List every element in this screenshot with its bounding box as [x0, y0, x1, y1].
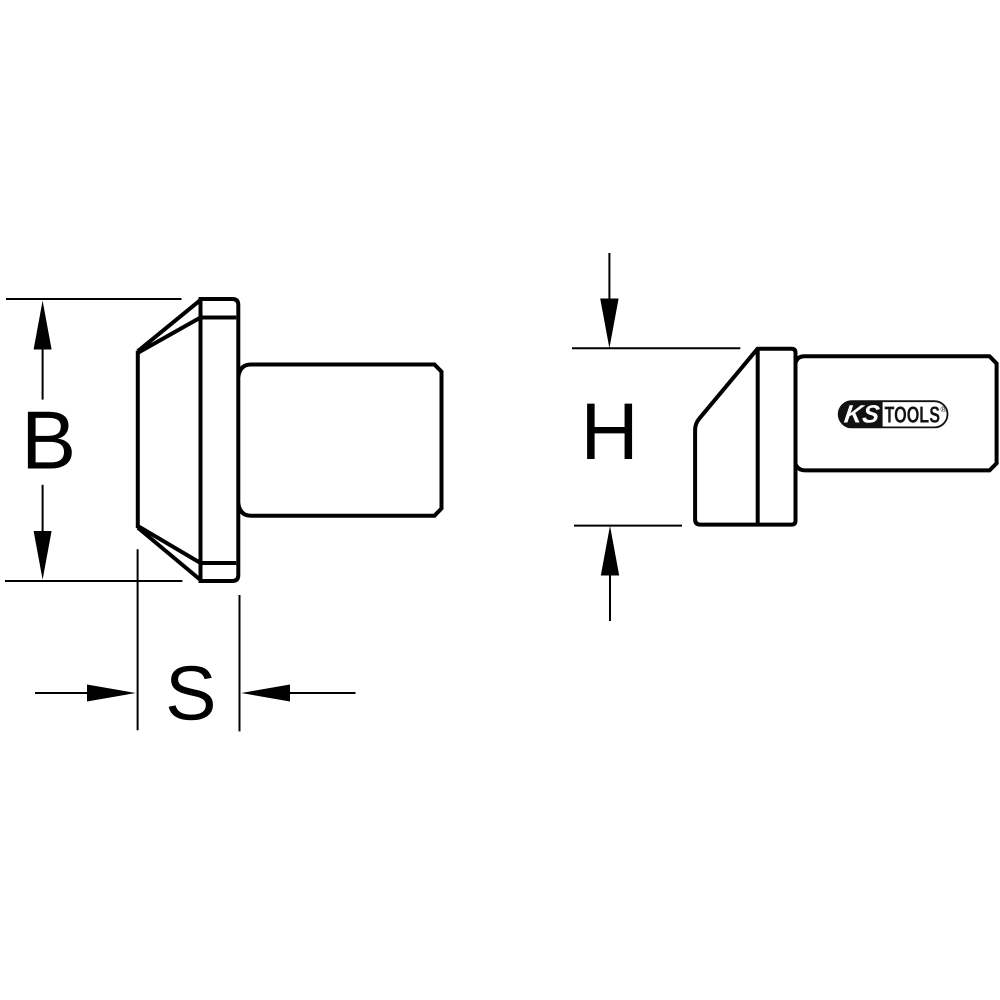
flange rounded rectangle: [201, 299, 239, 581]
right view: plug body (side view): [695, 349, 997, 525]
logo KS TOOLS: [839, 401, 948, 429]
wire B top extension line: [6, 298, 182, 300]
dimension S: [35, 549, 356, 731]
wire flange chamfer line top: [201, 316, 237, 320]
wire cone outer bottom edge: [138, 528, 201, 581]
wire H top extension line: [572, 347, 740, 349]
arrowhead B down: [34, 531, 52, 580]
wire H lower arrow stem: [609, 573, 611, 621]
head outline side view: [695, 349, 795, 525]
wire B bottom extension line: [5, 580, 182, 582]
shank outline side view: [796, 356, 997, 470]
arrowhead B up: [34, 301, 52, 350]
wire S left extension line: [137, 549, 139, 730]
logo black left half: [839, 401, 883, 427]
wire cone inner top edge: [138, 318, 200, 353]
svg-text:B: B: [21, 395, 76, 487]
wire cone outer top edge: [138, 300, 201, 352]
arrowhead S left-pointing: [241, 685, 290, 702]
dimension H: [572, 253, 740, 621]
wire B upper arrow stem: [42, 346, 44, 400]
left view: plug body (front view): [138, 299, 442, 581]
wire B lower arrow stem: [42, 485, 44, 537]
shank outline left view: [238, 365, 441, 516]
wire S right extension line: [239, 595, 241, 731]
svg-text:TOOLS: TOOLS: [885, 401, 941, 427]
wire cone inner bottom edge: [138, 526, 200, 563]
wire H bottom extension line: [574, 525, 682, 527]
wire flange chamfer line bottom: [201, 561, 237, 565]
wire S left arrow stem: [35, 692, 89, 694]
wire head face division line: [756, 350, 760, 525]
svg-text:S: S: [165, 650, 216, 736]
wire left face vertical: [136, 351, 140, 528]
svg-text:H: H: [581, 387, 639, 477]
svg-text:KS: KS: [843, 401, 882, 429]
wire H upper arrow stem: [608, 253, 610, 301]
dimension B: [5, 299, 182, 581]
wire S right arrow stem: [288, 692, 356, 694]
svg-text:®: ®: [941, 404, 948, 414]
logo pill outline: [839, 401, 948, 427]
arrowhead S right-pointing: [87, 685, 136, 702]
arrowhead H down: [600, 299, 618, 349]
arrowhead H up: [601, 526, 619, 576]
